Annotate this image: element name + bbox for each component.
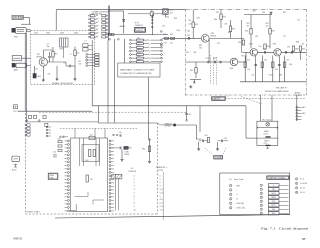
ceramic filter caps (208, 61, 221, 64)
svg-text:4: 4 (237, 194, 238, 196)
svg-text:7: 7 (296, 179, 297, 181)
svg-text:BF324: BF324 (211, 35, 217, 37)
svg-text:Fig. 7.1 Circuit diagram: Fig. 7.1 Circuit diagram (261, 227, 308, 231)
svg-text:(12 V): (12 V) (264, 133, 269, 135)
label FM/AM OSCILLATOR (52, 82, 73, 85)
svg-text:B+ Tuner Code: B+ Tuner Code (230, 178, 244, 181)
svg-text:4k7: 4k7 (280, 75, 283, 77)
svg-text:2: 2 (134, 182, 135, 184)
svg-text:123: 123 (90, 134, 93, 136)
svg-text:CONNECTED TO CHASSIS BU (M): CONNECTED TO CHASSIS BU (M) (120, 72, 152, 75)
label MAB8442 (53, 152, 58, 159)
wire FM input (26, 29, 30, 31)
svg-text:DETECTOR AMPLIFIER: DETECTOR AMPLIFIER (265, 90, 289, 93)
resistor R54 (264, 44, 270, 49)
svg-text:3: 3 (134, 186, 135, 188)
svg-text:CER.FILT: CER.FILT (213, 98, 220, 100)
tuning pot box (13, 105, 17, 113)
labels ceramic filters (206, 58, 217, 60)
svg-text:3: 3 (261, 193, 262, 195)
code 9499 90 (13, 237, 23, 240)
svg-text:DETECT: DETECT (165, 126, 172, 128)
svg-text:GF3: GF3 (273, 44, 277, 46)
svg-text:X-TAL: X-TAL (124, 151, 129, 154)
table tuner BU (156, 167, 168, 220)
svg-text:220p: 220p (177, 30, 181, 32)
capacitor C41 (187, 35, 190, 40)
ground top rail (244, 11, 273, 14)
svg-text:R28: R28 (174, 18, 177, 20)
svg-text:7+5: 7+5 (160, 209, 163, 211)
wire crystal (165, 14, 169, 17)
svg-text:R32: R32 (170, 34, 173, 36)
svg-text:1k5: 1k5 (264, 60, 267, 62)
wire bus main (92, 105, 246, 107)
legend box (220, 173, 290, 215)
svg-text:9499 90: 9499 90 (13, 237, 23, 240)
svg-text:470: 470 (286, 60, 289, 62)
svg-text:R23: R23 (137, 45, 140, 47)
svg-text:C31: C31 (164, 43, 167, 45)
alignment dashed lines (211, 55, 217, 85)
svg-text:362: 362 (272, 209, 275, 211)
label box tune control (48, 173, 58, 180)
svg-text:R14: R14 (232, 29, 235, 31)
svg-text:FM/AM OSCILLATOR: FM/AM OSCILLATOR (52, 82, 73, 85)
svg-text:5012: 5012 (37, 76, 41, 78)
svg-text:6: 6 (230, 208, 231, 210)
legend column 1 (230, 184, 246, 209)
wire IF in (244, 51, 250, 53)
wire synth top (98, 122, 157, 124)
bus with contact boxes (106, 33, 128, 40)
band switch contact bank (89, 15, 108, 39)
svg-text:4 MHz: 4 MHz (124, 154, 129, 156)
svg-text:SF1: SF1 (186, 52, 189, 54)
svg-text:10.7: 10.7 (170, 12, 174, 14)
svg-text:5+2: 5+2 (160, 203, 163, 205)
svg-text:1k0: 1k0 (188, 20, 191, 22)
diode + ground low (189, 79, 201, 88)
svg-text:2: 2 (230, 190, 231, 192)
svg-text:R27: R27 (137, 60, 140, 62)
AM aerial input (12, 56, 26, 72)
svg-text:R60: R60 (253, 11, 256, 13)
svg-text:C47: C47 (217, 43, 220, 45)
wire junction row (128, 13, 162, 15)
svg-text:MW: MW (237, 185, 240, 187)
aux socket (12, 156, 20, 171)
svg-text:8: 8 (296, 183, 297, 185)
page number 37 (302, 237, 306, 241)
wire + capacitor C52 (258, 49, 274, 54)
svg-text:R45: R45 (190, 70, 193, 72)
svg-text:R71: R71 (58, 139, 61, 141)
svg-text:1+2: 1+2 (160, 189, 163, 191)
svg-text:C30: C30 (162, 26, 165, 28)
wire AM det branch (109, 11, 124, 34)
label audio output (295, 92, 303, 97)
svg-text:4: 4 (230, 199, 231, 201)
wire mid v4 (124, 39, 126, 63)
svg-text:1n: 1n (309, 56, 311, 58)
svg-text:39p: 39p (47, 46, 50, 48)
svg-text:R54: R54 (267, 46, 270, 48)
capacitor tap (185, 106, 191, 121)
svg-text:7001: 7001 (34, 33, 38, 35)
svg-text:R53: R53 (272, 31, 275, 33)
svg-text:5: 5 (261, 201, 262, 203)
svg-text:47p: 47p (119, 132, 122, 134)
svg-text:7: 7 (261, 209, 262, 211)
svg-text:4n7: 4n7 (189, 114, 192, 116)
svg-text:C63: C63 (275, 69, 278, 71)
wire mid v3 (114, 39, 116, 123)
audio connector pins (296, 106, 306, 120)
synthesizer block dashed outline (25, 113, 157, 214)
resistor R53 (269, 15, 275, 49)
svg-text:C57: C57 (283, 36, 286, 38)
svg-text:8442: 8442 (53, 157, 57, 159)
wire IF out caps (281, 51, 307, 54)
svg-text:239: 239 (216, 12, 219, 14)
resistor R42 (188, 10, 198, 39)
dashed leader right (225, 98, 306, 100)
wire mid v2 (107, 40, 109, 123)
svg-text:GF2: GF2 (241, 56, 244, 58)
station detector node (165, 122, 176, 127)
svg-text:3: 3 (160, 186, 161, 188)
svg-text:B BU+ BU-: B BU+ BU- (237, 208, 246, 210)
FM/AM demodulator box (135, 28, 146, 33)
svg-text:R31: R31 (164, 34, 167, 36)
dashed bus (39, 111, 186, 113)
svg-text:GF4: GF4 (230, 68, 234, 70)
svg-text:CTRL: CTRL (50, 178, 54, 180)
IC bottom-left wire (69, 204, 76, 211)
resistor R57 (299, 46, 305, 60)
IC right vertical collectors (116, 174, 119, 210)
wire IF low path (185, 61, 230, 63)
stubs IC top (75, 128, 105, 138)
resistor R14 (229, 20, 235, 38)
svg-text:3k3: 3k3 (55, 54, 58, 56)
FM/AM oscillator block outline (31, 30, 95, 84)
svg-text:7002: 7002 (46, 33, 50, 35)
label switch bank (92, 11, 109, 15)
leader lines volume (205, 148, 226, 156)
svg-text:4: 4 (134, 189, 135, 191)
label box volume (214, 156, 223, 160)
svg-text:5: 5 (160, 196, 161, 198)
svg-text:3: 3 (230, 194, 231, 196)
svg-text:R51: R51 (245, 31, 248, 33)
resistor R45 (190, 62, 197, 78)
wire junction column (152, 14, 154, 36)
svg-text:8: 8 (261, 213, 262, 215)
wire audio down (296, 95, 298, 121)
svg-text:22k: 22k (48, 74, 51, 76)
svg-text:7: 7 (134, 199, 135, 201)
svg-text:9: 9 (296, 188, 297, 190)
resistor R50 (238, 40, 245, 45)
svg-text:C55: C55 (255, 36, 258, 38)
wire v200 (199, 106, 201, 132)
svg-text:OUTPUT: OUTPUT (295, 95, 303, 97)
IC left pin column (65, 140, 70, 212)
svg-text:4k7: 4k7 (225, 24, 228, 26)
legend column 3 (295, 178, 307, 194)
resistor R82 (142, 139, 151, 164)
IC left external parts (58, 139, 63, 152)
svg-text:B BU (M): B BU (M) (237, 203, 245, 205)
svg-text:9: 9 (134, 206, 135, 208)
svg-text:BU12: BU12 (12, 170, 17, 172)
emitter drop wires + ground bus (240, 56, 307, 82)
svg-text:(9 V): (9 V) (264, 143, 268, 145)
svg-text:1: 1 (134, 179, 135, 181)
table divisor (129, 168, 137, 212)
wire vertical pair left (25, 33, 26, 122)
bottom border line (55, 215, 290, 218)
wire riser R82 (148, 78, 150, 140)
wire RF out (209, 38, 244, 62)
wire GF2 base bias (242, 20, 245, 52)
svg-text:R21: R21 (137, 38, 140, 40)
svg-text:AF2: AF2 (302, 112, 305, 115)
caption Fig 7.1 (261, 227, 308, 231)
svg-text:C40: C40 (187, 31, 190, 33)
svg-text:1: 1 (230, 185, 231, 187)
svg-text:SYNTH. CHA 4: SYNTH. CHA 4 (27, 210, 40, 213)
node RF pins (160, 31, 162, 46)
svg-text:220: 220 (247, 60, 250, 62)
audio driver parts (196, 135, 228, 150)
emitter resistors (244, 62, 286, 68)
IC right pin column (109, 140, 114, 212)
svg-text:5+3: 5+3 (160, 206, 163, 208)
svg-text:R26: R26 (137, 56, 140, 58)
svg-text:R57: R57 (302, 49, 305, 51)
svg-text:R42: R42 (195, 24, 198, 26)
IC internal structure (75, 138, 105, 205)
svg-text:C64: C64 (289, 64, 292, 66)
svg-text:CF1: CF1 (206, 58, 209, 60)
oscillator output pins (86, 53, 99, 66)
svg-text:470: 470 (302, 43, 305, 45)
svg-text:100n: 100n (269, 75, 273, 77)
svg-text:S101: S101 (60, 49, 64, 51)
svg-text:R22: R22 (137, 42, 140, 44)
svg-text:C9: C9 (64, 63, 66, 65)
crystal filter XT1 (163, 9, 173, 15)
svg-text:B+ 12: B+ 12 (300, 188, 305, 190)
svg-text:R91: R91 (205, 135, 208, 137)
svg-text:MW2: MW2 (272, 213, 276, 215)
svg-text:VOLUME: VOLUME (215, 157, 221, 159)
connector pins left A (25, 124, 30, 136)
svg-text:1k0: 1k0 (252, 75, 255, 77)
interconnect rows (130, 38, 163, 63)
svg-text:R13: R13 (223, 17, 226, 19)
svg-text:10: 10 (134, 209, 136, 211)
svg-text:R24: R24 (137, 49, 140, 51)
wire from synth edge (158, 123, 174, 125)
oscillator interior (31, 33, 95, 82)
svg-text:BF494: BF494 (37, 57, 43, 59)
label TDA1576 (135, 22, 143, 27)
node pair above IC (113, 132, 122, 136)
dash-dot box top edge (185, 9, 306, 11)
svg-text:10n: 10n (287, 47, 290, 49)
svg-text:6: 6 (134, 196, 135, 198)
legend header box (267, 176, 289, 180)
svg-text:B+ 4: B+ 4 (300, 179, 304, 181)
wire AM input (22, 58, 31, 65)
divider block (112, 174, 122, 179)
labels sprinkle RF (164, 18, 228, 50)
svg-text:4k7: 4k7 (247, 25, 250, 27)
wire RF signal in (162, 37, 201, 39)
connector pins left B (46, 126, 51, 137)
svg-text:AM FM SW: AM FM SW (92, 13, 102, 16)
svg-text:2k2: 2k2 (266, 25, 269, 27)
svg-text:R56: R56 (295, 49, 298, 51)
svg-text:5003: 5003 (60, 33, 64, 35)
svg-text:0: 0 (134, 175, 135, 177)
svg-text:2: 2 (160, 182, 161, 184)
svg-text:C7: C7 (70, 54, 72, 56)
transistor GF1 (201, 33, 216, 42)
svg-text:AF1: AF1 (302, 106, 305, 109)
svg-text:1: 1 (261, 185, 262, 187)
svg-text:1: 1 (160, 179, 161, 181)
svg-text:R25: R25 (137, 52, 140, 54)
switch parts row (26, 115, 98, 126)
labels IF parts (247, 60, 289, 72)
transistor GF2 (249, 44, 258, 57)
svg-text:1+3: 1+3 (160, 192, 163, 194)
svg-text:R43: R43 (214, 19, 217, 21)
label synthesizer (27, 210, 40, 213)
svg-text:C70: C70 (297, 20, 300, 22)
wire GF4 out (238, 52, 246, 62)
legend header 1 (230, 178, 244, 181)
svg-text:6: 6 (261, 205, 262, 207)
svg-text:C66: C66 (262, 12, 265, 14)
svg-text:2003: 2003 (74, 33, 78, 35)
wire riser synth (97, 106, 99, 123)
resistor R51 (245, 15, 252, 49)
svg-text:185: 185 (272, 189, 275, 191)
svg-text:TDA1576: TDA1576 (135, 24, 143, 27)
switch bank row labels (96, 14, 97, 37)
svg-text:R41: R41 (197, 18, 200, 20)
FM aerial input filter (12, 28, 26, 39)
junction box on rail (150, 10, 153, 16)
svg-text:MP12: MP12 (271, 205, 275, 207)
svg-text:L2: L2 (85, 41, 87, 43)
svg-text:DIVISOR: DIVISOR (129, 171, 137, 173)
wire bus mid (128, 34, 168, 36)
svg-text:4: 4 (261, 197, 262, 199)
legend column 2 (260, 184, 288, 215)
svg-text:R50: R50 (238, 42, 241, 44)
detector amplifier dash-dot border (185, 10, 306, 95)
svg-text:DEMOD: DEMOD (136, 30, 143, 32)
label DETECTOR AMPLIFIER (265, 86, 289, 92)
svg-text:R46: R46 (228, 32, 231, 34)
wire aerial to oscillator (21, 17, 31, 24)
filter box above IC (89, 134, 95, 139)
loudspeaker box (257, 119, 278, 149)
transistor GF4 (230, 58, 238, 70)
svg-text:560: 560 (199, 47, 202, 49)
svg-text:SF2: SF2 (194, 52, 197, 54)
svg-text:C32: C32 (170, 43, 173, 45)
resistor input pair (165, 37, 175, 39)
wire into speaker (246, 106, 257, 138)
svg-text:(2 TR): (2 TR) (158, 170, 163, 172)
svg-text:C44: C44 (189, 24, 192, 26)
labels sprinkle misc (162, 11, 310, 59)
emitter capacitors (254, 65, 280, 66)
diode AA119 (120, 19, 125, 28)
resistor R13 (216, 10, 226, 28)
transistor GF3 (273, 44, 282, 57)
svg-text:2k2: 2k2 (77, 53, 80, 55)
cap left above IC (60, 136, 68, 138)
svg-text:0: 0 (160, 175, 161, 177)
svg-text:C41: C41 (187, 35, 190, 37)
svg-text:BANDSTAND: CONTACTS OF S1 ARE: BANDSTAND: CONTACTS OF S1 ARE (120, 69, 155, 72)
wire switch rails (108, 6, 109, 41)
wire to driver (176, 125, 197, 139)
svg-text:C95: C95 (224, 138, 227, 140)
dashed line above IC (60, 127, 137, 129)
wires speaker top (261, 95, 273, 121)
wire bus left (18, 110, 93, 112)
svg-text:R58: R58 (296, 42, 299, 44)
svg-text:TUNE: TUNE (50, 175, 54, 177)
wire rail drop (55, 10, 57, 31)
svg-text:1k8: 1k8 (79, 63, 82, 65)
svg-text:378: 378 (272, 201, 275, 203)
crystal 4MHz (111, 146, 132, 161)
svg-text:2: 2 (261, 189, 262, 191)
svg-text:37: 37 (302, 237, 306, 241)
svg-text:S 4: S 4 (131, 168, 134, 170)
wire supply rail top (56, 9, 185, 11)
svg-text:NMOS: NMOS (271, 197, 277, 199)
resistor R56 (292, 46, 298, 52)
labels sprinkle IF (241, 23, 299, 77)
svg-text:R62: R62 (283, 12, 286, 14)
note box (118, 63, 160, 77)
svg-text:4+5: 4+5 (160, 199, 163, 201)
svg-text:10n: 10n (259, 46, 262, 48)
svg-text:R82: R82 (142, 149, 145, 151)
svg-text:C61: C61 (247, 69, 250, 71)
svg-text:5: 5 (230, 203, 231, 205)
svg-text:B+ 4 BU: B+ 4 BU (300, 183, 307, 185)
svg-text:B+ 11: B+ 11 (300, 192, 305, 194)
svg-text:R2: R2 (36, 69, 38, 71)
svg-text:AA119: AA119 (120, 25, 125, 28)
diagonal leaders (211, 96, 262, 104)
svg-text:FM / AM IF: FM / AM IF (276, 86, 287, 89)
aerial socket BU1 (12, 15, 23, 19)
